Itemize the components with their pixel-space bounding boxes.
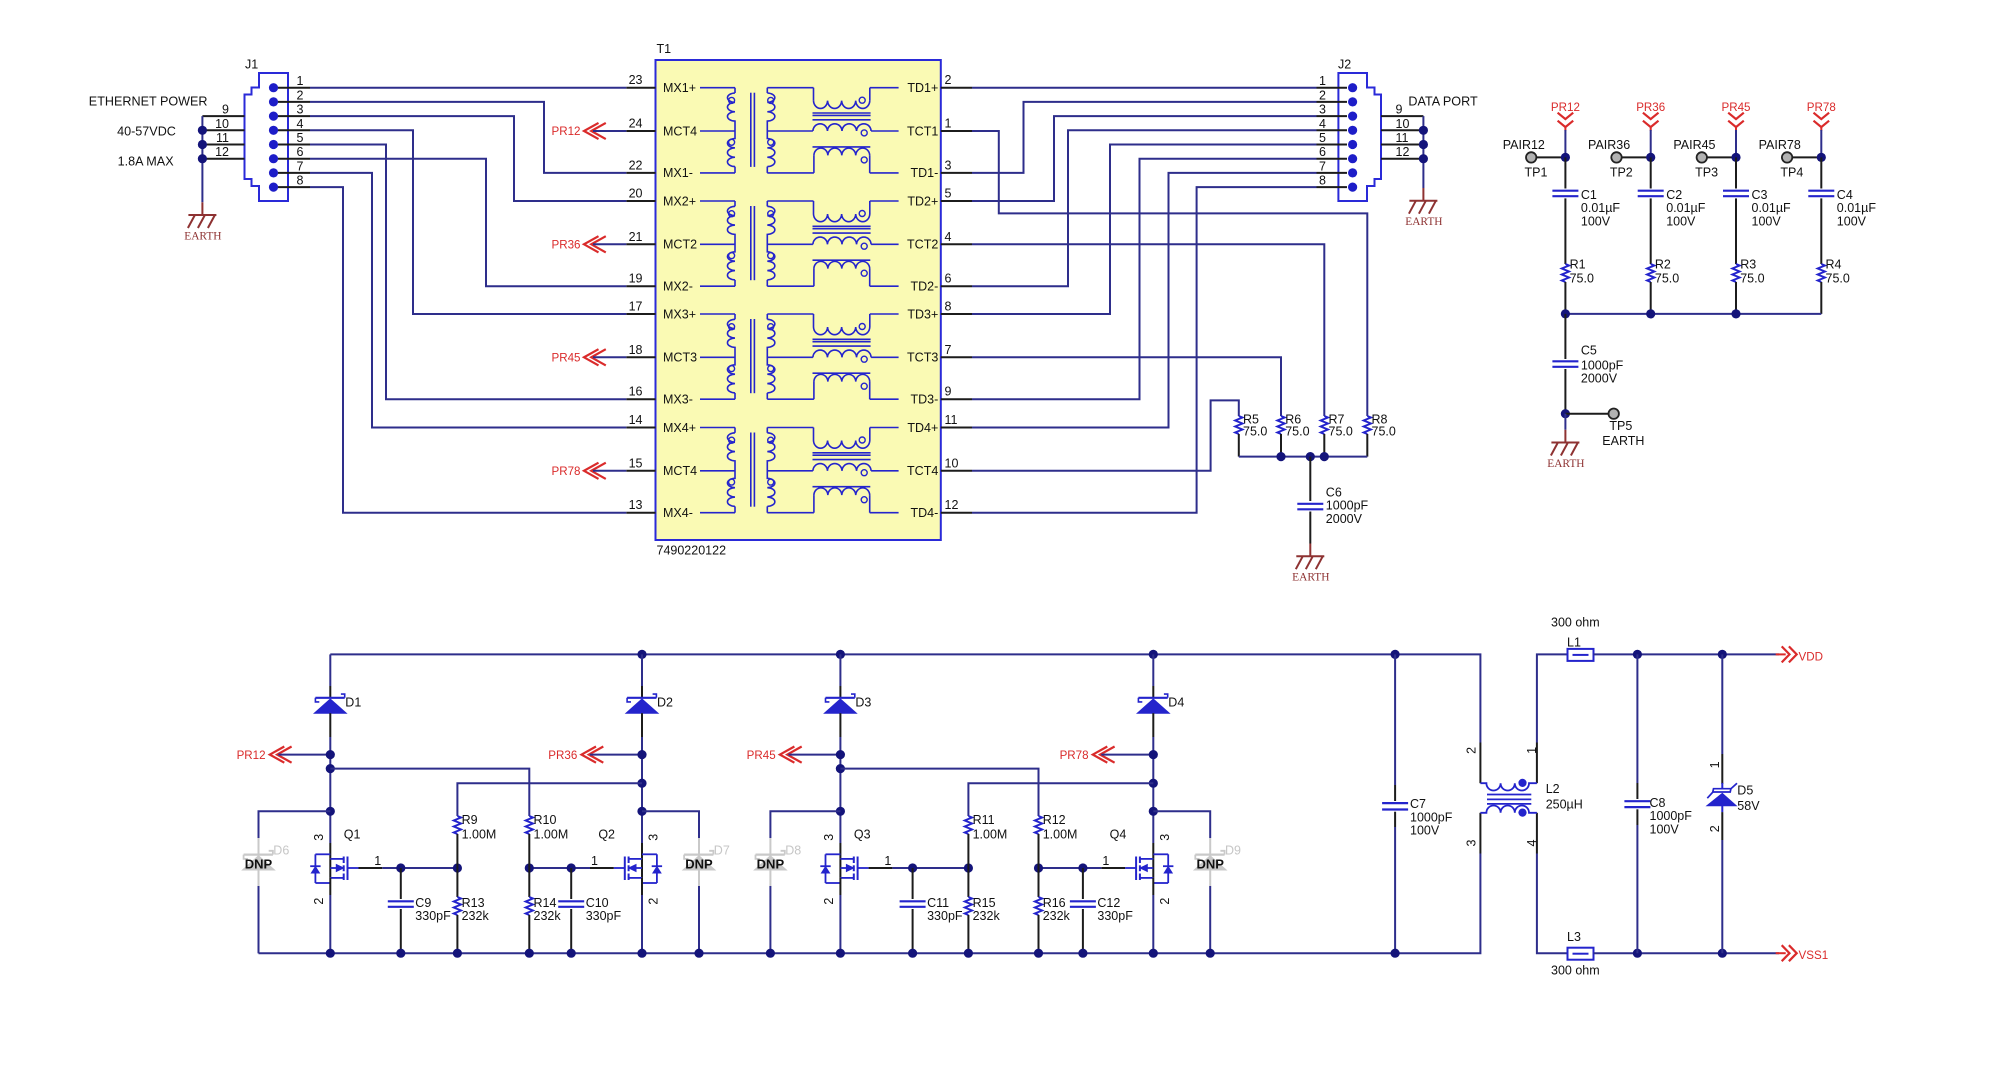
junction TP3	[1731, 153, 1740, 162]
T1 group 1 upper core	[813, 112, 871, 114]
svg-text:7: 7	[297, 159, 304, 173]
wire T1.3 TD1- to J2.2	[972, 102, 1317, 173]
svg-text:2: 2	[1158, 898, 1172, 905]
svg-text:3: 3	[822, 834, 836, 841]
svg-text:1: 1	[1319, 74, 1326, 88]
svg-text:MX3-: MX3-	[663, 393, 693, 407]
junction R15 rail	[964, 949, 973, 958]
svg-text:100V: 100V	[1410, 824, 1440, 838]
wire R11 to gate	[967, 834, 969, 868]
wire PR36 to T1	[593, 243, 626, 245]
junction C6 bus	[1306, 452, 1315, 461]
svg-text:6: 6	[297, 145, 304, 159]
svg-text:PAIR45: PAIR45	[1673, 138, 1715, 152]
T1 group 4 lower core	[813, 486, 871, 488]
junction J1 pin11	[198, 140, 207, 149]
svg-text:232k: 232k	[973, 909, 1001, 923]
svg-text:C6: C6	[1326, 485, 1342, 499]
resistor R8	[1364, 416, 1371, 434]
J1 pin 12	[202, 158, 244, 160]
svg-text:TCT4: TCT4	[907, 464, 938, 478]
T1 group 2 core	[750, 206, 752, 280]
svg-text:1.00M: 1.00M	[1043, 827, 1078, 841]
inductor L1 ferrite bead	[1568, 649, 1594, 661]
svg-text:PR78: PR78	[551, 465, 580, 478]
wire T1.11 TD4+ to J2.7	[972, 173, 1317, 428]
svg-text:TCT3: TCT3	[907, 351, 938, 365]
capacitor C4	[1820, 157, 1822, 188]
svg-text:2000V: 2000V	[1581, 372, 1618, 386]
svg-text:13: 13	[629, 498, 643, 512]
junction R7 bus	[1320, 452, 1329, 461]
wire D2 to Q2 drain	[641, 713, 643, 737]
svg-text:23: 23	[629, 73, 643, 87]
T1 pin 12 TD4-	[941, 512, 972, 514]
svg-text:C2: C2	[1666, 188, 1682, 202]
svg-text:D9: D9	[1225, 844, 1241, 858]
svg-text:C8: C8	[1650, 796, 1666, 810]
wire T1.9 TD3- to J2.6	[972, 159, 1317, 400]
svg-text:3: 3	[312, 834, 326, 841]
capacitor C3	[1735, 157, 1737, 188]
resistor R6	[1277, 416, 1284, 434]
T1 pin 14 MX4+	[626, 427, 655, 429]
junction D5 bottom	[1718, 949, 1727, 958]
T1 pin 13 MX4-	[626, 512, 655, 514]
T1 group 2 secondary choke	[767, 206, 775, 280]
wire D1 to Q1 drain	[329, 713, 331, 737]
wire J1.5 to T1.16	[310, 145, 626, 400]
svg-text:R11: R11	[973, 813, 995, 827]
svg-text:8: 8	[945, 300, 952, 314]
svg-text:Q4: Q4	[1110, 828, 1127, 842]
wire Q3 source to rail	[839, 878, 841, 895]
T1 group 4 secondary choke	[767, 433, 775, 507]
T1 winding group 3 primary choke	[700, 313, 735, 315]
wire R11 tie	[968, 783, 1153, 816]
wire T1.12 TD4- to J2.8	[972, 187, 1317, 513]
svg-text:7: 7	[1319, 159, 1326, 173]
diode D7 DNP	[698, 838, 700, 886]
resistor R10	[526, 816, 533, 834]
svg-text:MCT3: MCT3	[663, 351, 697, 365]
svg-text:14: 14	[629, 413, 643, 427]
svg-text:232k: 232k	[534, 909, 562, 923]
port VSS1	[1776, 952, 1786, 954]
wire C2 to R2	[1650, 198, 1652, 264]
svg-text:330pF: 330pF	[586, 909, 622, 923]
svg-text:75.0: 75.0	[1285, 425, 1309, 439]
junction tie row D3	[836, 764, 845, 773]
wire PR78 to T1	[593, 470, 626, 472]
svg-text:12: 12	[215, 145, 229, 159]
svg-text:MX4-: MX4-	[663, 506, 693, 520]
svg-text:TD4+: TD4+	[907, 421, 938, 435]
svg-text:C3: C3	[1752, 188, 1768, 202]
resistor R15	[967, 868, 969, 897]
svg-text:TP5: TP5	[1609, 419, 1632, 433]
J1 pin 5	[269, 140, 278, 149]
junction bus TP1	[1561, 309, 1570, 318]
T1 group 4 core	[750, 433, 752, 507]
svg-text:4: 4	[1525, 840, 1539, 847]
svg-text:R16: R16	[1043, 896, 1066, 910]
svg-text:DNP: DNP	[685, 856, 713, 871]
T1 pin 15 MCT4	[626, 470, 655, 472]
svg-text:4: 4	[297, 117, 304, 131]
J1 pin 1	[269, 83, 278, 92]
T1 group 4 TD+ winding	[767, 427, 813, 429]
capacitor C2	[1650, 157, 1652, 188]
wire R1 to bus	[1564, 282, 1566, 314]
svg-text:0.01µF: 0.01µF	[1752, 201, 1792, 215]
svg-text:MX1+: MX1+	[663, 81, 696, 95]
svg-text:C1: C1	[1581, 188, 1597, 202]
T1 pin 7 TCT3	[941, 356, 972, 358]
svg-text:R1: R1	[1570, 258, 1586, 272]
svg-text:Q2: Q2	[598, 828, 615, 842]
wire R9 tie	[457, 783, 642, 816]
svg-text:75.0: 75.0	[1655, 272, 1679, 286]
J2 pin 11	[1381, 144, 1423, 146]
T1 group 2 TCT winding	[767, 243, 813, 245]
wire C4 to R4	[1820, 198, 1822, 264]
svg-text:PR78: PR78	[1807, 101, 1836, 114]
test point TP5	[1609, 409, 1619, 419]
wire L2 pin4 to L3	[1537, 854, 1568, 954]
T1 pin 2 TD1+	[941, 87, 972, 89]
svg-text:100V: 100V	[1581, 214, 1611, 228]
svg-text:5: 5	[297, 131, 304, 145]
junction J2 pin12	[1419, 154, 1428, 163]
J2 pin 1	[1348, 83, 1357, 92]
svg-text:D2: D2	[657, 696, 673, 710]
svg-text:21: 21	[629, 230, 643, 244]
capacitor C9	[400, 868, 402, 899]
junction R16 rail	[1034, 949, 1043, 958]
resistor R5	[1235, 416, 1242, 434]
wire DNP branch D6	[259, 811, 331, 838]
svg-text:100V: 100V	[1650, 822, 1680, 836]
T1 pin 6 TD2-	[941, 285, 972, 287]
svg-text:R10: R10	[534, 813, 557, 827]
capacitor C1	[1564, 157, 1566, 188]
J2 pin 3	[1348, 112, 1357, 121]
svg-text:EARTH: EARTH	[1292, 572, 1329, 584]
svg-text:2: 2	[297, 88, 304, 102]
junction J1 pin10	[198, 126, 207, 135]
svg-text:40-57VDC: 40-57VDC	[117, 125, 176, 139]
svg-text:330pF: 330pF	[1097, 909, 1133, 923]
svg-text:9: 9	[222, 103, 229, 117]
T1 pin 5 TD2+	[941, 200, 972, 202]
svg-text:10: 10	[945, 456, 959, 470]
T1 pin 9 TD3-	[941, 398, 972, 400]
junction top rail C7	[1391, 650, 1400, 659]
junction C8 bottom	[1633, 949, 1642, 958]
wire Q1 gate net	[359, 867, 383, 869]
J2 pin 12	[1381, 158, 1423, 160]
svg-text:J2: J2	[1338, 58, 1351, 72]
svg-text:4: 4	[945, 230, 952, 244]
svg-text:TD1-: TD1-	[911, 166, 939, 180]
svg-text:7: 7	[945, 343, 952, 357]
svg-text:C9: C9	[415, 896, 431, 910]
svg-text:C11: C11	[927, 896, 949, 910]
svg-text:R4: R4	[1826, 258, 1842, 272]
wire T1.5 TD2+ to J2.3	[972, 116, 1317, 201]
svg-text:1: 1	[1525, 747, 1539, 754]
svg-text:PR45: PR45	[747, 749, 776, 762]
svg-text:ETHERNET POWER: ETHERNET POWER	[89, 95, 208, 109]
inductor L3 ferrite bead	[1568, 948, 1594, 960]
resistor R1	[1562, 264, 1569, 282]
svg-text:C10: C10	[586, 896, 609, 910]
T1 pin 19 MX2-	[626, 285, 655, 287]
svg-text:TP1: TP1	[1525, 165, 1548, 179]
svg-text:PR36: PR36	[1636, 101, 1665, 114]
wire L2 pin1 to L1	[1537, 654, 1568, 742]
junction branch D2	[637, 807, 646, 816]
svg-text:9: 9	[945, 385, 952, 399]
svg-text:330pF: 330pF	[927, 909, 963, 923]
svg-text:TCT2: TCT2	[907, 238, 938, 252]
svg-text:4: 4	[1319, 117, 1326, 131]
T1 group 1 TD+ winding	[767, 87, 813, 89]
svg-text:24: 24	[629, 117, 643, 131]
junction PR78 node	[1149, 750, 1158, 759]
junction J1 pin12	[198, 154, 207, 163]
svg-text:MX1-: MX1-	[663, 166, 693, 180]
svg-text:2: 2	[945, 73, 952, 87]
wire C6 to earth	[1309, 512, 1311, 544]
diode D6 DNP	[258, 838, 260, 886]
diode D9 DNP	[1209, 838, 1211, 886]
svg-text:2: 2	[1708, 825, 1722, 832]
wire D3 to Q3 drain	[839, 713, 841, 737]
wire R3 to bus	[1735, 282, 1737, 314]
T1 group 3 TD+ winding	[767, 313, 813, 315]
wire L1 to VDD	[1594, 653, 1780, 655]
capacitor C8	[1636, 654, 1638, 783]
T1 winding group 2 primary choke	[700, 200, 735, 202]
svg-text:1.00M: 1.00M	[462, 827, 497, 841]
svg-text:1000pF: 1000pF	[1581, 358, 1624, 372]
svg-text:MCT2: MCT2	[663, 238, 697, 252]
svg-text:TD3+: TD3+	[907, 307, 938, 321]
junction top rail D3	[836, 650, 845, 659]
wire R10 to gate	[528, 834, 530, 868]
svg-text:D7: D7	[714, 844, 730, 858]
wire R12 tie	[840, 769, 1038, 816]
wire J1.7 to T1.14	[310, 173, 626, 428]
svg-text:EARTH: EARTH	[184, 230, 221, 242]
junction C9 rail	[396, 949, 405, 958]
junction C8 top	[1633, 650, 1642, 659]
wire Q2 source to rail	[641, 878, 643, 895]
T1 group 1 secondary choke	[767, 93, 775, 167]
T1 winding group 4 primary choke	[700, 427, 735, 429]
junction Q2 source rail	[637, 949, 646, 958]
junction branch D4	[1149, 807, 1158, 816]
capacitor C11	[912, 868, 914, 899]
svg-text:L2: L2	[1546, 782, 1560, 796]
svg-text:L1: L1	[1567, 636, 1581, 650]
wire C1 to R1	[1564, 198, 1566, 264]
svg-text:3: 3	[1319, 103, 1326, 117]
T1 pin 4 TCT2	[941, 243, 972, 245]
svg-text:PR12: PR12	[1551, 101, 1580, 114]
svg-text:1.00M: 1.00M	[534, 827, 569, 841]
T1 group 4 upper core	[813, 452, 871, 454]
svg-text:20: 20	[629, 187, 643, 201]
svg-text:C4: C4	[1837, 188, 1853, 202]
junction tie row D1	[326, 764, 335, 773]
svg-text:2: 2	[1465, 747, 1479, 754]
J2 pin 8	[1348, 183, 1357, 192]
svg-text:Q1: Q1	[344, 828, 361, 842]
wire J1.6 to T1.19	[310, 159, 626, 287]
svg-text:DATA PORT: DATA PORT	[1408, 94, 1478, 108]
capacitor C5	[1564, 314, 1566, 359]
ground EARTH at J2	[1422, 188, 1424, 201]
junction branch D1	[326, 807, 335, 816]
svg-text:EARTH: EARTH	[1602, 434, 1644, 448]
junction TP5	[1561, 409, 1570, 418]
junction top rail D2	[637, 650, 646, 659]
svg-text:MX2+: MX2+	[663, 194, 696, 208]
wire T1.6 TD2- to J2.4	[972, 130, 1317, 286]
wire J1.1 to T1.23	[310, 87, 626, 89]
svg-text:0.01µF: 0.01µF	[1581, 201, 1621, 215]
svg-text:8: 8	[1319, 174, 1326, 188]
svg-text:18: 18	[629, 343, 643, 357]
svg-text:0.01µF: 0.01µF	[1666, 201, 1706, 215]
svg-text:MCT4: MCT4	[663, 464, 697, 478]
T1 pin 16 MX3-	[626, 398, 655, 400]
svg-text:1: 1	[297, 74, 304, 88]
ground EARTH at TP5	[1564, 414, 1566, 430]
J1 pin 7	[269, 168, 278, 177]
junction gate res	[453, 863, 462, 872]
diode D4 TVS	[1138, 697, 1167, 699]
junction C7 bottom rail	[1391, 949, 1400, 958]
svg-text:11: 11	[216, 131, 229, 145]
junction J2 pin10	[1419, 126, 1428, 135]
svg-text:3: 3	[297, 103, 304, 117]
svg-text:MX4+: MX4+	[663, 421, 696, 435]
svg-text:D8: D8	[785, 844, 801, 858]
T1 pin 8 TD3+	[941, 313, 972, 315]
svg-text:Q3: Q3	[854, 828, 871, 842]
svg-text:DNP: DNP	[1196, 856, 1224, 871]
resistor R11	[965, 816, 972, 834]
junction J2 pin11	[1419, 140, 1428, 149]
J1 pin 10	[202, 129, 244, 131]
svg-text:R2: R2	[1655, 258, 1671, 272]
junction R13 rail	[453, 949, 462, 958]
J1 pin 6	[269, 154, 278, 163]
svg-text:J1: J1	[245, 58, 258, 72]
svg-text:DNP: DNP	[757, 856, 785, 871]
J1 pin 11	[202, 144, 244, 146]
J2 pin 10	[1381, 129, 1423, 131]
svg-text:TP2: TP2	[1610, 165, 1633, 179]
svg-text:D4: D4	[1168, 696, 1184, 710]
svg-text:EARTH: EARTH	[1405, 216, 1442, 228]
wire DNP branch D9	[1153, 811, 1210, 838]
junction PR36 node	[637, 750, 646, 759]
svg-text:2: 2	[1319, 88, 1326, 102]
wire Q4 gate net	[1101, 867, 1125, 869]
resistor R9	[454, 816, 461, 834]
junction PR12 node	[326, 750, 335, 759]
wire DNP branch D8	[770, 811, 840, 838]
resistor R16	[1038, 868, 1040, 897]
wire R9 to gate	[456, 834, 458, 868]
svg-text:330pF: 330pF	[415, 909, 451, 923]
J1 pin 4	[269, 126, 278, 135]
wire D2 column	[641, 654, 643, 686]
wire T1.8 TD3+ to J2.5	[972, 145, 1317, 315]
wire test point common bus	[1565, 313, 1821, 315]
T1 pin 17 MX3+	[626, 313, 655, 315]
T1 pin 23 MX1+	[626, 87, 655, 89]
svg-text:1000pF: 1000pF	[1410, 810, 1453, 824]
T1 pin 24 MCT4	[626, 130, 655, 132]
svg-text:D5: D5	[1737, 783, 1753, 797]
svg-text:3: 3	[945, 158, 952, 172]
junction PR45 node	[836, 750, 845, 759]
svg-text:PR45: PR45	[1721, 101, 1750, 114]
T1 group 4 TD- winding	[767, 512, 814, 514]
svg-text:10: 10	[215, 117, 229, 131]
T1 group 2 TD- winding	[767, 285, 814, 287]
svg-text:R13: R13	[462, 896, 485, 910]
wire J1.2 to T1.22	[310, 102, 626, 173]
svg-text:300 ohm: 300 ohm	[1551, 615, 1600, 629]
wire T1.10 TCT4 to R5	[972, 400, 1239, 470]
diode D3 TVS	[826, 697, 855, 699]
T1 group 2 TD+ winding	[767, 200, 813, 202]
transistor Q2	[656, 854, 658, 883]
junction gate res	[525, 863, 534, 872]
capacitor C6	[1309, 457, 1311, 501]
J1 pin 9	[202, 115, 244, 117]
wire J1.8 to T1.13	[310, 187, 626, 513]
svg-text:TD2+: TD2+	[907, 194, 938, 208]
svg-text:300 ohm: 300 ohm	[1551, 963, 1600, 977]
wire R12 to gate	[1038, 834, 1040, 868]
svg-text:2: 2	[312, 898, 326, 905]
T1 pin 20 MX2+	[626, 200, 655, 202]
svg-text:22: 22	[629, 158, 643, 172]
wire D4 column	[1152, 654, 1154, 686]
svg-text:VDD: VDD	[1799, 651, 1823, 664]
junction DNP D9 rail	[1206, 949, 1215, 958]
wire J2 ground bus	[1422, 116, 1424, 188]
svg-text:TD1+: TD1+	[907, 81, 938, 95]
svg-text:2000V: 2000V	[1326, 512, 1363, 526]
svg-text:DNP: DNP	[245, 856, 273, 871]
svg-text:11: 11	[1396, 131, 1409, 145]
svg-text:11: 11	[945, 413, 958, 427]
svg-text:R15: R15	[973, 896, 996, 910]
wire Q4 source to rail	[1152, 878, 1154, 895]
svg-text:2: 2	[822, 898, 836, 905]
wire J1.3 to T1.20	[310, 116, 626, 201]
J2 pin 7	[1348, 168, 1357, 177]
